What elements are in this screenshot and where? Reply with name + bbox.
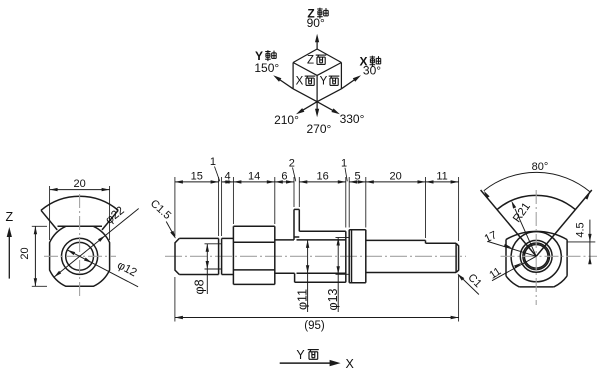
svg-text:Z: Z	[307, 55, 314, 67]
svg-text:Z: Z	[5, 210, 13, 224]
svg-text:90°: 90°	[307, 16, 325, 30]
svg-text:2: 2	[289, 157, 295, 169]
svg-text:1: 1	[341, 157, 347, 169]
svg-text:270°: 270°	[306, 122, 331, 136]
svg-text:330°: 330°	[340, 112, 365, 126]
svg-text:15: 15	[191, 170, 203, 182]
svg-text:20: 20	[389, 170, 401, 182]
svg-text:16: 16	[316, 170, 328, 182]
svg-text:6: 6	[281, 170, 287, 182]
svg-text:X: X	[296, 76, 304, 88]
svg-text:Y: Y	[296, 348, 305, 362]
svg-text:4: 4	[224, 170, 230, 182]
svg-text:20: 20	[19, 247, 31, 259]
svg-text:210°: 210°	[274, 113, 299, 127]
svg-text:4.5: 4.5	[575, 222, 587, 237]
svg-text:(95): (95)	[304, 320, 325, 332]
svg-text:φ11: φ11	[296, 289, 310, 310]
svg-text:20: 20	[73, 178, 85, 190]
svg-text:80°: 80°	[532, 161, 549, 173]
svg-text:5: 5	[354, 170, 360, 182]
svg-text:X: X	[346, 357, 355, 371]
svg-text:φ8: φ8	[192, 279, 206, 294]
svg-text:φ13: φ13	[326, 288, 340, 310]
svg-text:11: 11	[436, 170, 447, 182]
svg-text:14: 14	[248, 170, 260, 182]
svg-text:1: 1	[210, 156, 216, 168]
svg-text:Y: Y	[320, 76, 328, 88]
svg-text:30°: 30°	[363, 64, 381, 78]
svg-text:150°: 150°	[254, 61, 279, 75]
